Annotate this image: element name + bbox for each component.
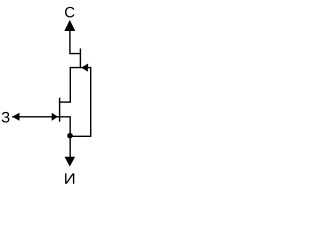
wire: drain-side channel vertical x=80.4 xyxy=(79,48,81,67)
gate electrode bar x=59.6 xyxy=(59,98,61,122)
wire: drain lead down from arrow, jog right at y=53.6 xyxy=(70,31,81,54)
node И (source label) xyxy=(65,173,74,183)
substrate arrow (points left at drain vertical) xyxy=(81,64,88,72)
gate arrow (points right into gate bar) xyxy=(52,113,58,121)
wire: gate lead y=116.8 from З to channel, bend down to source xyxy=(12,117,70,157)
node З (gate label) xyxy=(2,112,10,123)
gate terminal arrow (points left toward З) xyxy=(12,113,19,121)
junction dot at source/substrate tie xyxy=(67,133,73,139)
wire: upper channel vertical x=70.3 xyxy=(69,67,71,102)
wire: jog left at y=102.1 to gate bar xyxy=(59,101,71,103)
node С (drain label) xyxy=(65,7,74,18)
drain terminal arrow (points up) xyxy=(64,20,75,31)
wire: substrate horizontal y=67.6 and right wrap down to source junction xyxy=(70,68,91,137)
source terminal arrow (points down) xyxy=(65,157,76,167)
